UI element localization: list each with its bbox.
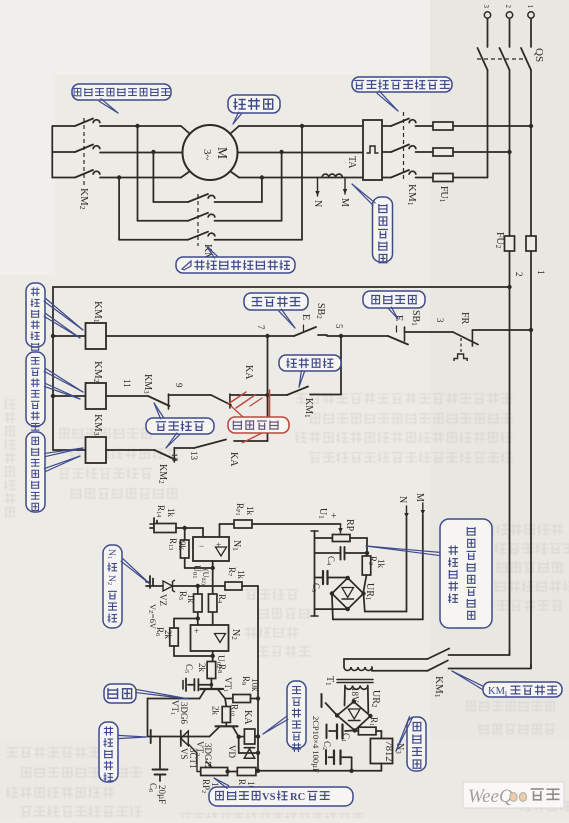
label chain-lock contact (red) — [228, 417, 289, 433]
label delta-connect contactor coil (vertical) — [26, 432, 45, 512]
auxiliary contact KM1 lower — [427, 661, 447, 671]
svg-text:1k: 1k — [236, 570, 246, 580]
node VZ junction — [196, 584, 200, 588]
resistor R10 2k — [225, 699, 226, 707]
svg-text:+: + — [331, 511, 337, 522]
resistor R6 2k — [174, 618, 198, 620]
interlock contact KM2 (row3) — [106, 449, 155, 451]
resistor R9 10k — [225, 698, 233, 700]
svg-text:2: 2 — [504, 5, 512, 9]
contact KA (row3) — [194, 440, 226, 449]
label transistor relay (vertical) — [287, 681, 306, 748]
label KM1 auxiliary contact — [483, 682, 562, 697]
svg-text:N: N — [397, 496, 408, 503]
relay coil KA — [237, 735, 241, 739]
resistor RP1 1k — [219, 524, 221, 537]
wire control left rail — [52, 287, 54, 450]
wire node7 vertical — [267, 336, 269, 441]
svg-text:−: − — [199, 541, 204, 551]
svg-text:1k: 1k — [186, 594, 196, 604]
auxiliary contact KM1 upper — [427, 649, 449, 660]
disconnect switch QS — [487, 18, 489, 47]
capacitor C2 — [351, 757, 353, 771]
wire R7 to +12 rail — [242, 585, 258, 587]
svg-text:3DG6: 3DG6 — [179, 702, 189, 724]
watermark WeeQoo — [463, 782, 564, 808]
label motor line current signal sampling (vertical two-col) — [440, 519, 492, 628]
svg-text:KA: KA — [243, 365, 254, 380]
delta risers left — [135, 124, 139, 128]
svg-text:9k: 9k — [177, 541, 187, 551]
svg-text:RC: RC — [290, 792, 305, 803]
label current transformer (vertical) — [373, 197, 393, 262]
node 7 — [265, 334, 269, 338]
label power contactor coil (vertical) — [26, 283, 45, 347]
wire control top rail — [53, 286, 510, 288]
wire VT1 emitter down-left — [148, 698, 200, 700]
wire motor phase line 2 — [453, 151, 510, 153]
contactor coil KM1 — [53, 335, 86, 337]
left rail of U1 — [315, 537, 333, 539]
resistor R11 100k — [225, 769, 229, 773]
svg-text:VS: VS — [179, 748, 189, 760]
resistor R4 — [212, 568, 214, 594]
wire SB1 to FR — [405, 331, 453, 333]
wire bridge bottom to rail — [315, 608, 348, 610]
svg-text:E: E — [300, 314, 311, 320]
svg-text:2k: 2k — [211, 706, 221, 716]
svg-text:+: + — [194, 626, 199, 636]
svg-text:15: 15 — [170, 453, 180, 462]
svg-text:20µF: 20µF — [157, 785, 167, 804]
contactor KM2 star contacts — [51, 126, 53, 178]
thermal relay FR contact — [453, 332, 478, 345]
label thyristor switch (vertical) — [99, 722, 118, 782]
ground for VZ — [146, 576, 153, 588]
svg-text:RP: RP — [344, 519, 355, 532]
node 5 — [327, 335, 388, 337]
potentiometer RP2 1M — [201, 768, 228, 776]
svg-text:9: 9 — [174, 383, 184, 388]
wire KM1 coil row to node 7 — [106, 335, 268, 337]
node N2 plus input — [197, 613, 199, 626]
wire phase3 vertical — [487, 70, 489, 178]
svg-text:VD: VD — [227, 745, 237, 758]
fuse FU1 (three) — [433, 122, 453, 130]
transistor VT1 3DG6 — [201, 688, 224, 690]
svg-text:11: 11 — [122, 379, 132, 388]
capacitor C3 — [315, 577, 323, 579]
label stop button — [363, 291, 425, 308]
node L2 terminal — [506, 12, 512, 18]
svg-text:KA: KA — [242, 710, 253, 725]
wire N line — [406, 518, 408, 612]
freewheel diode VD — [238, 737, 240, 753]
label amplifier — [104, 684, 136, 703]
self-lock contact KM1 — [268, 394, 288, 396]
contactor coil KM2 — [53, 395, 86, 397]
wire motor phase line 3 — [453, 177, 488, 179]
svg-text:3: 3 — [435, 318, 445, 323]
wire 7812 out to rail — [380, 764, 382, 771]
zener diode VZ 6V — [146, 585, 163, 587]
svg-text:KA: KA — [228, 452, 239, 467]
potentiometer RP — [332, 535, 350, 542]
wire line2 to upper contact — [509, 650, 511, 655]
wire line1 to lower contact — [530, 664, 532, 668]
node L1 terminal — [528, 12, 534, 18]
label motor (dianDongJi) — [228, 95, 280, 113]
svg-text:1: 1 — [526, 5, 534, 9]
gate wire of VS — [188, 744, 200, 772]
red check marks — [228, 392, 246, 404]
contactor coil KM3 — [53, 449, 86, 451]
svg-text:QS: QS — [533, 48, 545, 62]
svg-text:N: N — [312, 200, 323, 207]
svg-text:M: M — [339, 198, 350, 207]
start button SB2 — [294, 327, 316, 336]
wire +12 vertical rail — [257, 586, 259, 771]
resistor R1 — [355, 729, 359, 732]
wire phase2 vertical (line 2) — [509, 70, 511, 655]
rectifier bridge UR2 — [337, 702, 370, 731]
op-amp N1 — [202, 528, 204, 537]
resistor R5 1k — [197, 586, 199, 594]
current transformer TA winding — [322, 174, 329, 177]
arrow M (TA tap) — [344, 178, 346, 195]
svg-text:1k: 1k — [166, 508, 176, 518]
regulator N3 7812 — [376, 730, 381, 732]
interlock contact KM3 (row2) — [106, 395, 148, 397]
resistor R13 9k — [184, 528, 186, 540]
capacitor C4 — [315, 552, 341, 554]
svg-text:1k: 1k — [376, 559, 386, 569]
svg-text:FR: FR — [459, 312, 470, 325]
label Y-connect contactor main contacts — [72, 84, 171, 100]
label DC power (vertical) — [407, 717, 426, 771]
svg-text:10k: 10k — [250, 678, 260, 692]
svg-text:2k: 2k — [197, 663, 207, 673]
ground at bridge — [326, 703, 338, 715]
label delta-connect contactor main contacts — [176, 257, 295, 273]
label start button — [244, 293, 308, 310]
svg-text:7812: 7812 — [383, 741, 394, 762]
wire phase1 vertical (line 1) — [530, 70, 532, 668]
node L3 terminal — [484, 12, 490, 18]
resistor R7 1k — [198, 585, 225, 587]
label Y-connect contactor coil (vertical) — [26, 352, 45, 426]
stop button SB1 — [388, 336, 408, 345]
contactor KM3 delta contacts — [153, 201, 188, 203]
node U02 — [212, 651, 214, 661]
resistor R2 1k — [362, 556, 371, 575]
resistor R14 1k — [150, 527, 154, 529]
fuse FU2 pair — [505, 236, 515, 251]
arrow into RP wiper — [340, 524, 342, 533]
red vertical stroke — [269, 390, 271, 433]
wire M line — [422, 515, 424, 619]
svg-text:2CP10×4 100µF: 2CP10×4 100µF — [311, 716, 321, 773]
junction +12 bottom — [256, 769, 260, 773]
svg-text:VZ=6V: VZ=6V — [147, 604, 158, 630]
junction dots on feeders — [529, 124, 533, 128]
resistor R8 2k — [207, 662, 216, 679]
label N1 N2 amplitude-detect (vertical) — [103, 545, 122, 628]
svg-text:VS: VS — [262, 792, 276, 803]
svg-text:13: 13 — [189, 451, 199, 461]
capacitor C5 — [210, 679, 212, 690]
svg-text:3: 3 — [482, 5, 490, 9]
label supply contactor main contacts — [352, 77, 452, 92]
op-amp N2 — [191, 625, 229, 651]
label RC delay network — [209, 787, 353, 806]
arrow N (TA tap) — [317, 178, 319, 197]
contactor KM1 main contacts — [391, 119, 409, 127]
svg-text:M: M — [215, 147, 230, 159]
output U01 node — [211, 566, 215, 570]
node A wire — [176, 527, 203, 529]
label interlock contact — [146, 418, 214, 434]
svg-text:2: 2 — [514, 272, 524, 277]
svg-text:2k: 2k — [163, 630, 173, 640]
transformer T1 primary — [343, 659, 345, 667]
svg-text:3DG12: 3DG12 — [203, 743, 213, 770]
transistor VT2 3DG12 — [225, 723, 227, 727]
svg-text:TA: TA — [346, 156, 357, 169]
svg-text:1: 1 — [504, 689, 508, 698]
node 13 label — [174, 447, 194, 449]
svg-text:M: M — [414, 493, 425, 502]
transformer T1 secondary 18V — [345, 686, 353, 690]
motor M 3~ — [183, 125, 238, 180]
thyristor VS 3CT1 — [148, 736, 151, 738]
wire RP1 to U1+ — [252, 523, 341, 525]
svg-text:KM: KM — [488, 686, 506, 697]
contact KA (row2 NC) — [169, 394, 212, 396]
capacitor C6 20uF — [159, 737, 161, 770]
svg-text:3~: 3~ — [201, 149, 213, 161]
current relay box with pulse symbol — [363, 120, 382, 180]
label self-lock contact — [279, 355, 341, 371]
svg-text:1: 1 — [536, 270, 546, 275]
rectifier bridge UR1 — [332, 578, 364, 609]
capacitor C1 100uF — [345, 729, 355, 732]
svg-text:1k: 1k — [245, 506, 255, 516]
wire DC rail — [258, 770, 381, 772]
wire RP right to R2 top — [350, 537, 367, 539]
transformer T1 core — [337, 679, 373, 681]
svg-text:7: 7 — [256, 325, 266, 330]
wire T1 primary to aux contacts — [344, 658, 427, 660]
wire motor phase line 1 — [453, 125, 531, 127]
svg-text:VZ: VZ — [158, 594, 168, 606]
svg-text:5: 5 — [334, 324, 344, 329]
ground for R14 — [150, 518, 157, 530]
svg-text:WeeQ: WeeQ — [468, 786, 513, 807]
